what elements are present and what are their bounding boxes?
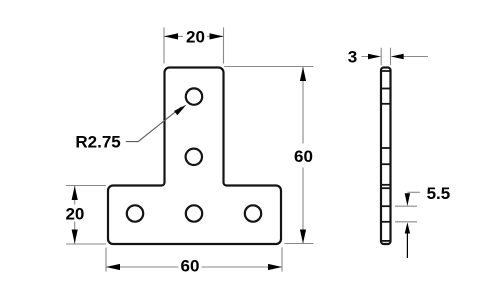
svg-text:20: 20 [186,28,205,47]
svg-text:R2.75: R2.75 [75,132,120,151]
svg-text:60: 60 [181,257,200,276]
svg-text:60: 60 [294,147,313,166]
svg-text:5.5: 5.5 [427,184,451,203]
svg-text:20: 20 [65,204,84,223]
svg-text:3: 3 [348,48,357,67]
